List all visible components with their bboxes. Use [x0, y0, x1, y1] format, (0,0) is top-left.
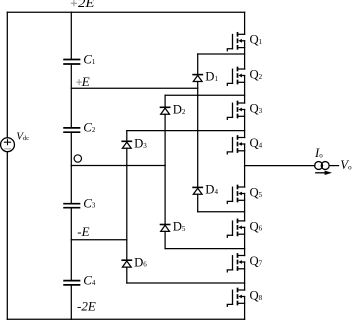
- capacitor C2: [64, 120, 96, 135]
- wire left bus upper: [6, 12, 8, 138]
- transistor Q3: [227, 101, 262, 119]
- svg-text:D4: D4: [205, 183, 218, 197]
- svg-text:Q5: Q5: [250, 185, 263, 199]
- svg-text:Q7: Q7: [250, 254, 263, 268]
- svg-text:C2: C2: [83, 120, 96, 135]
- wire right bus segment 2: [244, 41, 246, 69]
- wire +E rail: [71, 87, 197, 89]
- wire clamp rail D1-D4 middle: [197, 82, 199, 187]
- wire clamp rail D2-D5 lower: [164, 231, 166, 248]
- wire right bus segment 4: [244, 110, 246, 138]
- transistor Q5: [227, 185, 262, 203]
- wire clamp rail D3-D6 middle: [126, 148, 128, 259]
- transistor Q4: [227, 136, 262, 154]
- wire clamp rail D3-D6 lower: [126, 267, 128, 283]
- capacitor C1: [64, 51, 96, 66]
- wire -E rail: [71, 239, 127, 241]
- wire bottom rail -2E: [7, 318, 244, 320]
- wire capacitor bus segment 3: [70, 133, 72, 203]
- diode D3: [122, 136, 147, 150]
- wire right bus segment 8: [244, 262, 246, 290]
- svg-text:D6: D6: [134, 255, 147, 269]
- svg-text:D5: D5: [173, 220, 186, 234]
- diode D2: [161, 102, 186, 116]
- wire capacitor bus segment 1: [70, 12, 72, 58]
- wire junction Q7-Q8: [127, 282, 245, 284]
- diode D1: [193, 70, 218, 84]
- svg-text:C4: C4: [83, 272, 96, 287]
- wire right bus segment 3: [244, 76, 246, 104]
- node +E label: [77, 74, 90, 89]
- wire capacitor bus segment 4: [70, 209, 72, 280]
- wire clamp rail D1-D4 lower: [197, 194, 199, 212]
- transistor Q8: [227, 288, 262, 306]
- diode D5: [161, 220, 186, 234]
- svg-text:-2E: -2E: [77, 299, 96, 314]
- wire junction Q5-Q6: [198, 211, 245, 213]
- wire output lead: [329, 165, 338, 167]
- svg-text:Q1: Q1: [250, 33, 263, 47]
- wire junction Q1-Q2: [198, 53, 245, 55]
- svg-text:Q4: Q4: [250, 136, 263, 150]
- wire right bus segment 6: [244, 194, 246, 221]
- wire clamp rail D2-D5 upper: [164, 95, 166, 106]
- wire right bus segment 5: [244, 144, 246, 187]
- wire output junction: [245, 165, 315, 167]
- wire right bus segment 1: [244, 12, 246, 34]
- wire right bus segment 7: [244, 227, 246, 255]
- svg-text:Vo: Vo: [340, 158, 352, 172]
- svg-text:Vdc: Vdc: [16, 131, 29, 143]
- svg-text:-E: -E: [77, 224, 89, 239]
- diode D6: [122, 255, 147, 269]
- wire top rail +2E: [7, 11, 244, 13]
- wire capacitor bus segment 5: [70, 286, 72, 320]
- svg-text:Q6: Q6: [250, 219, 263, 233]
- transistor Q1: [227, 33, 262, 51]
- svg-text:Q8: Q8: [250, 288, 263, 302]
- transistor Q2: [227, 67, 262, 85]
- wire clamp rail D3-D6 upper: [126, 131, 128, 141]
- transistor Q7: [227, 254, 262, 272]
- svg-text:E: E: [81, 74, 90, 89]
- node O circle: [74, 155, 81, 162]
- svg-text:C3: C3: [83, 195, 96, 210]
- wire junction Q6-Q7: [165, 248, 245, 250]
- wire right bus segment 9: [244, 297, 246, 320]
- wire capacitor bus segment 2: [70, 65, 72, 127]
- svg-text:C1: C1: [83, 51, 96, 66]
- wire junction Q3-Q4: [127, 130, 245, 132]
- capacitor C3: [64, 195, 96, 210]
- diode D4: [193, 183, 218, 197]
- svg-text:Q2: Q2: [250, 67, 263, 81]
- svg-text:D2: D2: [173, 102, 186, 116]
- svg-text:2E: 2E: [78, 0, 95, 10]
- wire left bus lower: [6, 152, 8, 320]
- svg-text:D3: D3: [134, 136, 147, 150]
- Io arrow: [316, 171, 332, 175]
- svg-text:D1: D1: [205, 70, 218, 84]
- output terminal circles: [315, 162, 330, 170]
- wire clamp rail D2-D5 middle: [164, 114, 166, 224]
- svg-text:Io: Io: [314, 146, 323, 160]
- capacitor C4: [64, 272, 96, 287]
- wire clamp rail D1-D4 upper: [197, 54, 199, 74]
- svg-text:Q3: Q3: [250, 101, 263, 115]
- wire junction Q2-Q3: [165, 94, 245, 96]
- source Vdc: [1, 131, 30, 152]
- node +2E label: [71, 0, 94, 10]
- wire O rail: [71, 165, 165, 167]
- transistor Q6: [227, 219, 262, 237]
